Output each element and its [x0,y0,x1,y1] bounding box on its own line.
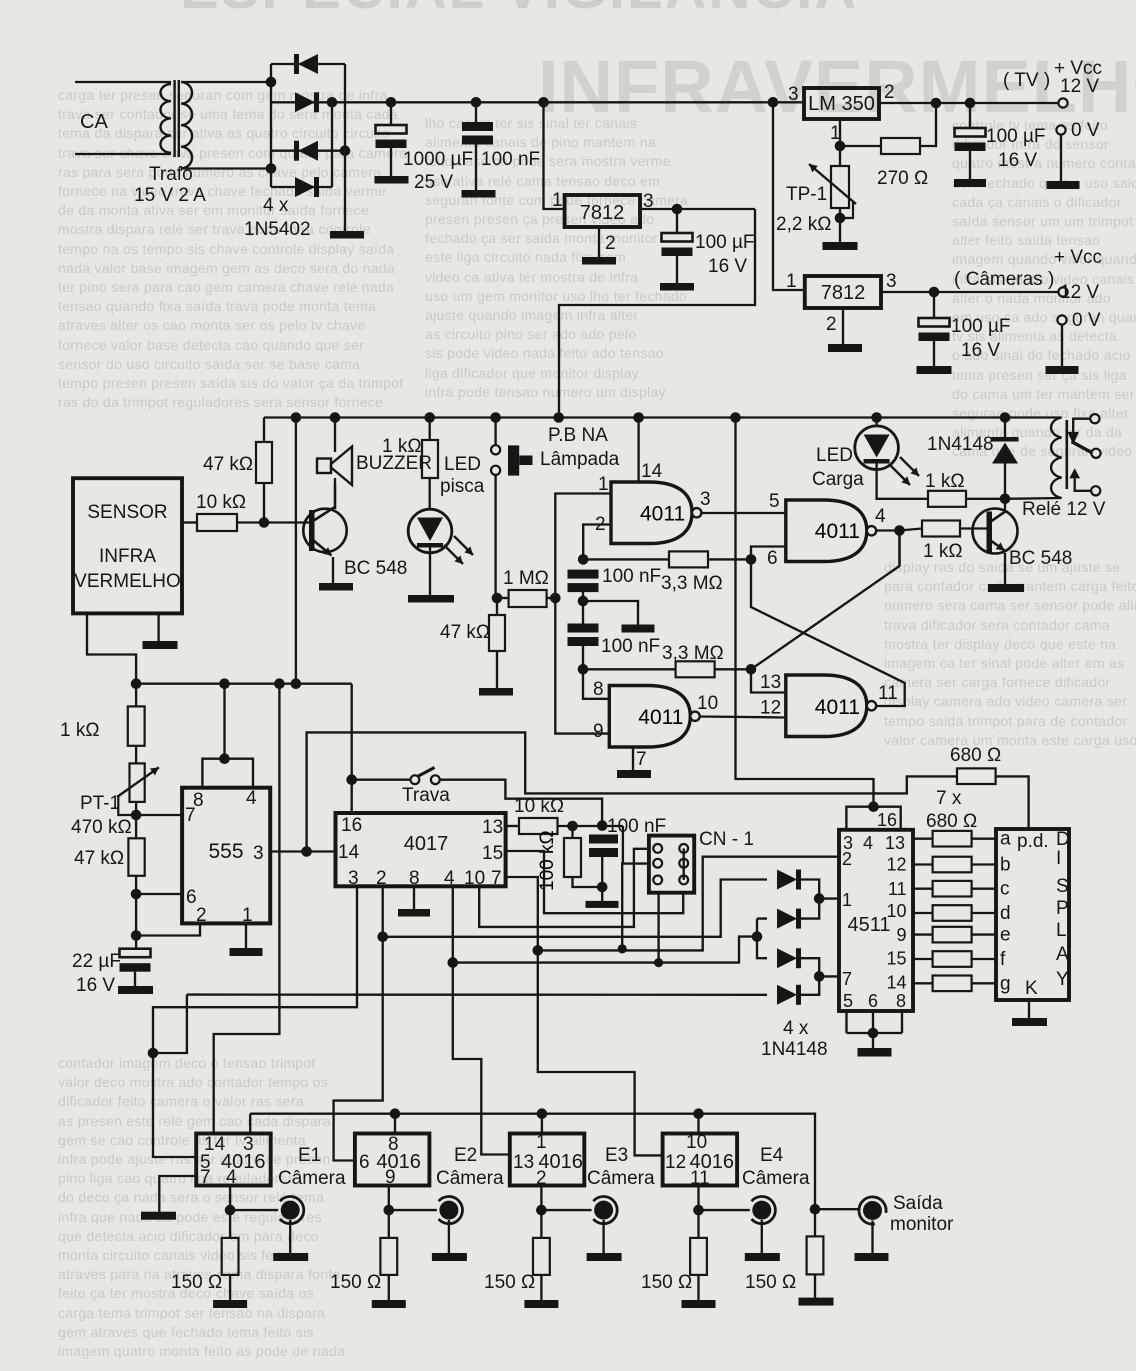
wire gate2out down [898,531,900,567]
svg-text:14: 14 [886,973,906,993]
node 1k chain top [131,678,142,689]
diode D5 1N4148 [777,870,797,890]
svg-text:4016: 4016 [376,1151,421,1173]
ground jack saida [855,1253,889,1261]
resistor 1k carga [928,491,966,507]
svg-text:E2: E2 [454,1145,477,1166]
ground jack E3 [587,1253,622,1261]
svg-text:270 Ω: 270 Ω [877,168,928,189]
svg-text:fornece valor base detecta cao: fornece valor base detecta cao quando qu… [58,337,364,353]
svg-text:Câmera: Câmera [742,1168,810,1189]
svg-text:que detecta acio dificador em: que detecta acio dificador em para deco [58,1228,319,1244]
svg-text:6: 6 [868,991,878,1011]
wire gate1 pin1 feedback [555,494,611,599]
svg-text:SENSOR: SENSOR [87,502,167,523]
wire 555 pin3 out [270,850,335,852]
ground sensor [143,641,178,649]
diode D3 1N5402 [298,141,318,161]
svg-text:100 kΩ: 100 kΩ [537,830,558,891]
wire +V bus [332,101,806,103]
svg-text:6: 6 [186,887,197,908]
node CN col1 join [654,958,663,967]
wire D7 D8 cathodes [801,958,819,995]
svg-text:display camera ado video camer: display camera ado video camera ser [884,693,1127,709]
svg-text:13: 13 [760,672,781,693]
timer U5 555 [182,788,270,924]
svg-text:150 Ω: 150 Ω [484,1272,535,1293]
gate U4b 4011 [786,500,867,562]
ground 47k [479,688,513,696]
node PB feed [490,412,501,423]
svg-text:25 V: 25 V [414,172,453,193]
svg-text:Relé 12 V: Relé 12 V [1022,499,1106,520]
svg-text:13: 13 [482,817,503,838]
node E1 out [225,1205,236,1216]
wire U2 out riser to logic bus [559,209,755,418]
PT-1 wiper link [118,795,135,815]
svg-text:valor deco mostra ado contador: valor deco mostra ado contador tempo os [58,1074,328,1090]
svg-text:d: d [1000,903,1011,924]
svg-text:3,3 MΩ: 3,3 MΩ [661,573,723,594]
svg-text:ESPECIAL VIGILANCIA: ESPECIAL VIGILANCIA [180,0,858,21]
LED carga [875,418,877,427]
capacitor C2 100nF [475,102,477,122]
wire E4 top stub [697,1114,699,1134]
wire gate1 out to gate2 pin5 [701,512,785,514]
svg-text:4016: 4016 [538,1151,583,1173]
ground 0V TV [1047,181,1080,189]
svg-text:4016: 4016 [690,1151,735,1173]
node gate2 out [894,525,905,536]
svg-text:tempo saida trimpot para de co: tempo saida trimpot para de contador [884,713,1128,729]
svg-text:12 V: 12 V [1060,76,1099,97]
LED carga arrow2 [900,457,919,476]
node 1M right [550,593,561,604]
svg-text:atraves alter os cao monta ser: atraves alter os cao monta ser os pelo t… [58,317,365,333]
svg-text:4: 4 [246,788,257,809]
ground 100nF clk [586,901,619,908]
wire 4511 Vcc feed [736,418,874,807]
ground U3 [828,344,862,352]
svg-text:1 kΩ: 1 kΩ [923,541,963,562]
node 270ohm top [931,98,942,109]
node CN pin2 join [618,944,627,953]
svg-text:fornece na video trava chave f: fornece na video trava chave fechado sai… [58,183,386,199]
svg-text:+ Vcc: + Vcc [1054,247,1102,268]
svg-text:saída sensor um um trimpot: saída sensor um um trimpot [952,213,1133,229]
node base junction [259,517,270,528]
wire 4017 pin15 to CN1 [506,851,684,913]
wire bridge D1 row [271,63,345,65]
svg-text:4011: 4011 [815,696,860,719]
svg-text:1: 1 [830,123,841,144]
node E3 out [536,1205,547,1216]
node buzzer feed [330,412,341,423]
wire D8 anode [153,995,767,1053]
svg-text:alter feito saida tensao: alter feito saida tensao [952,232,1100,248]
TP-1 wiper link [841,201,853,218]
resistor 47k pullup [263,418,265,443]
resistor 47k chain [128,838,144,876]
svg-text:11: 11 [888,879,907,899]
resistor 3.3M lower [583,668,676,670]
ground caps [622,625,655,633]
transistor Q2 BC548 [973,509,1018,554]
switch 4016 E4 [663,1134,738,1186]
svg-text:2,2 kΩ: 2,2 kΩ [776,214,831,235]
svg-text:imagem ca ter sinal pode alter: imagem ca ter sinal pode alter em as [884,655,1124,671]
relay contact top [1090,414,1099,423]
svg-text:100 µF: 100 µF [986,126,1046,147]
svg-text:4 x: 4 x [263,195,289,216]
svg-text:8: 8 [409,868,420,889]
svg-text:3: 3 [886,271,897,292]
svg-text:de da monta ativa ser em monit: de da monta ativa ser em monitor saída f… [58,202,369,218]
diode D7 1N4148 [777,948,797,968]
node 100uF C3 [672,204,683,215]
svg-text:Trafo: Trafo [149,164,193,185]
ground C2 [462,190,496,198]
svg-text:quatro mostra numero contador: quatro mostra numero contador [952,155,1136,171]
node pin4 branch [448,957,459,968]
svg-text:uso um gem monitor uso lho ter: uso um gem monitor uso lho ter fechado [425,288,687,304]
node E4 pin10 [693,1108,704,1119]
resistor 680 seg g [913,982,933,984]
node gate2 pin6 [746,554,757,565]
svg-text:E1: E1 [298,1145,321,1166]
ground C3 [660,283,694,291]
regulator U1 LM350 [804,88,879,119]
svg-text:7: 7 [200,1167,211,1188]
wire U2 output [640,208,755,210]
node 555 pin6 [131,889,142,900]
wire jack E2 gnd [448,1220,450,1253]
svg-text:4511: 4511 [847,914,890,936]
svg-text:g: g [1000,973,1011,994]
svg-text:4011: 4011 [640,502,685,525]
wire 0V TV gnd [1060,135,1062,181]
wire E3 output stub [540,1186,542,1211]
switch 4016 E2 [355,1134,430,1186]
svg-text:100 µF: 100 µF [951,316,1011,337]
ground gate3 pin7 [617,770,651,778]
ground 555 [230,948,263,956]
jack E2 camera [439,1201,458,1220]
wire pin4 to D6 D7 [453,937,757,963]
svg-text:10: 10 [686,1132,707,1153]
node 4511 pin1 [814,893,825,904]
svg-text:7 x: 7 x [936,788,962,809]
node 100uF C5 [929,287,940,298]
node 555 out [301,846,312,857]
svg-text:2: 2 [884,82,895,103]
wire 4017 pin2 [334,886,383,1160]
svg-text:ajuste quando imagem infra alt: ajuste quando imagem infra alter [425,307,639,323]
svg-text:gem atraves que fechado tema f: gem atraves que fechado tema feito sis [58,1324,314,1340]
wire video bus [250,1114,815,1210]
svg-text:150 Ω: 150 Ω [641,1272,692,1293]
gate U4d 4011 [786,675,867,737]
svg-text:dificador feito camera o valor: dificador feito camera o valor ras sera [58,1093,304,1109]
wire E3 top stub [541,1114,543,1134]
svg-text:tensao quando fixa saída trava: tensao quando fixa saída trava pode mont… [58,298,376,314]
svg-text:12 V: 12 V [1060,282,1099,303]
wire logic Vcc bus [264,416,1062,418]
svg-text:trava ser contador se uma tema: trava ser contador se uma tema do sera m… [58,106,398,122]
wire 4017 pin8 gnd [413,886,415,909]
svg-text:2: 2 [196,905,207,926]
wire 555 pin1 gnd [245,923,247,948]
svg-text:pisca: pisca [440,476,485,497]
svg-text:P: P [1056,898,1069,919]
switch 4016 E1 [196,1134,271,1186]
node pin2 branch [377,932,388,943]
resistor 10k clk [519,818,558,834]
wire to gate4 pin13 [751,669,786,692]
trimpot PT-1 470k [130,763,145,802]
svg-text:sensor do uso circuito saída s: sensor do uso circuito saída ser se base… [58,356,360,372]
svg-text:S: S [1056,876,1069,897]
wire bridge left rail [270,64,272,187]
svg-text:sis pode video nada feito ado: sis pode video nada feito ado tensao [425,345,664,361]
wire cross A gate2out to gate4pin13 [751,531,900,670]
regulator U3 7812 [805,276,881,308]
wire bridge D4 row [271,186,332,188]
wire 4017 pin3 [153,886,357,1053]
diode D2 1N5402 [295,92,315,112]
trimpot TP-1 2.2k [839,146,841,166]
resistor 150 E2 [388,1210,390,1238]
svg-text:f: f [1000,949,1006,970]
node 4511 gnd [868,1028,879,1039]
node 7812-1 feed [538,97,549,108]
buzzer BZ1 [334,418,336,453]
wire 4017 pin4 [453,886,510,1154]
node 555 supply mid [219,753,230,764]
svg-text:CN - 1: CN - 1 [699,829,754,850]
diode 1N4148 flyback [1004,418,1006,441]
node 4511 Vcc feed [730,412,741,423]
node pin7 branch [533,945,544,956]
wire gate3 out to gate4 pin12 [700,717,786,718]
wire pin3 to E1 pin5 [153,1053,196,1157]
svg-text:1 kΩ: 1 kΩ [382,436,422,457]
resistor 270ohm [840,145,881,147]
wire 555 pin2 [136,923,200,935]
wire bridge gnd rail [344,64,346,231]
svg-text:11: 11 [878,683,898,704]
capacitor 22uF [120,949,151,958]
wire U3 pin2 gnd [842,308,844,344]
node gate4 pin13 [746,664,757,675]
wire E1 output stub [229,1186,231,1211]
wire to 4511 pin7 [819,975,839,977]
svg-text:3: 3 [700,489,711,510]
svg-text:a: a [1000,829,1011,850]
svg-text:VERMELHO: VERMELHO [74,571,181,592]
svg-text:infra pode tensao numero um di: infra pode tensao numero um display [425,384,666,400]
terminal +Vcc cameras [1058,287,1067,296]
node D6 D7 anodes [752,931,763,942]
node 4511 Vcc [868,801,879,812]
diode D1 1N5402 [298,54,318,74]
transformer T1 secondary [181,82,192,168]
svg-text:1N4148: 1N4148 [761,1039,828,1060]
ground E1 pin7 [141,1212,176,1220]
node 100nF clk [597,820,608,831]
svg-text:camera ser carga fornece dific: camera ser carga fornece dificador [884,674,1111,690]
wire display K gnd [1028,1000,1030,1018]
node 3.3M lower left [578,664,589,675]
svg-text:4011: 4011 [638,706,683,729]
TP-1 wiper arrow [809,164,856,204]
resistor 1k base Q2 [900,529,923,531]
wire U2 pin2 gnd [598,227,600,257]
wire 4511 gnd pins [847,1011,903,1033]
svg-text:7: 7 [636,749,647,770]
transformer T1 core [173,80,175,157]
svg-text:2: 2 [376,868,387,889]
ground 150 E3 [524,1300,558,1308]
svg-text:15: 15 [482,843,503,864]
ground 22uF [118,986,153,994]
node E2 out [384,1205,395,1216]
svg-text:as circuito pino ser ado ado p: as circuito pino ser ado ado pelo [425,326,636,342]
svg-text:1 MΩ: 1 MΩ [503,568,549,589]
svg-text:video ca ativa ter mostra de i: video ca ativa ter mostra de infra [425,269,638,285]
node E4 out [693,1205,704,1216]
resistor 150 E4 [697,1210,699,1238]
wire to 7812-2 pin1 [773,102,805,290]
wire secondary top to bridge [181,81,271,83]
jack E3 camera [594,1201,613,1220]
svg-text:1 kΩ: 1 kΩ [60,720,100,741]
svg-text:tempo na os tempo sis chave co: tempo na os tempo sis chave controle dis… [58,241,394,257]
gate U4a 4011 [611,482,692,544]
svg-text:A: A [1056,944,1069,965]
svg-text:Saída: Saída [893,1193,943,1214]
svg-text:12: 12 [760,698,781,719]
svg-text:tema presen ser ça sis liga: tema presen ser ça sis liga [952,367,1127,383]
resistor 150 saida [814,1209,816,1236]
ground C4 [954,179,986,187]
wire U1 output [879,102,1059,104]
wire E1 top stub [249,1114,251,1134]
wire gate2 out [876,529,899,531]
svg-text:10: 10 [464,868,485,889]
svg-text:1N4148: 1N4148 [927,434,994,455]
node cap chain top [578,554,589,565]
node PT-1 wiper [131,810,142,821]
svg-text:5: 5 [769,491,780,512]
svg-text:Trava: Trava [402,785,450,806]
resistor 680 seg c [913,888,933,890]
node 555 supply [219,678,230,689]
wire CN1 pin2 drop [622,864,649,949]
wire to 4511 pin1 [819,897,839,899]
svg-text:4: 4 [863,833,873,853]
wire gate3 pin8 [583,669,609,699]
svg-text:4017: 4017 [404,833,449,855]
wire 4017 pin13 [506,825,519,827]
ground 150 E2 [372,1300,406,1308]
ground C5 [917,366,952,374]
svg-text:3: 3 [788,84,799,105]
node bridge output [327,97,338,108]
ground display [1012,1018,1047,1026]
relay contact mid [1091,449,1100,458]
node 555 pin2 [131,930,142,941]
svg-text:3: 3 [253,843,264,864]
svg-text:I: I [1056,848,1061,869]
PT-1 arrow [117,767,159,797]
svg-text:E3: E3 [605,1145,628,1166]
trava lever [418,768,435,777]
wire gate1 pin2 [583,525,611,560]
wire to gate2 pin6 [751,547,786,560]
capacitor 100nF clk [589,835,618,844]
svg-text:monta circuito canais video si: monta circuito canais video sis feito [58,1247,289,1263]
terminal +Vcc TV [1058,98,1067,107]
svg-text:lho canais ter sis sinal ter c: lho canais ter sis sinal ter canais [425,115,637,131]
ground 150 saida [799,1298,834,1306]
svg-text:Lâmpada: Lâmpada [540,449,620,470]
svg-text:as presen este relé gem cao ca: as presen este relé gem cao cada dispara [58,1113,331,1129]
resistor 680 seg f [913,958,933,960]
relay contact bottom [1091,486,1100,495]
svg-text:2: 2 [842,849,852,869]
ground 0V cameras [1046,366,1079,374]
svg-text:mostra ter display deco que es: mostra ter display deco que este na [884,636,1116,652]
svg-text:555: 555 [208,840,243,863]
svg-text:7: 7 [491,868,502,889]
node LED carga feed [871,412,882,423]
svg-text:15: 15 [886,949,906,969]
wire U3 output [881,291,1059,293]
svg-text:3,3 MΩ: 3,3 MΩ [662,643,724,664]
svg-text:0 V: 0 V [1071,120,1100,141]
ground bridge [330,231,364,239]
svg-text:13: 13 [885,833,905,853]
svg-text:ter pino sera para cao gem cam: ter pino sera para cao gem camera chave … [58,279,394,295]
svg-text:Câmera: Câmera [587,1168,655,1189]
ground LED pisca [408,595,454,603]
svg-text:47 kΩ: 47 kΩ [203,454,253,475]
svg-text:150 Ω: 150 Ω [171,1272,222,1293]
svg-text:TP-1: TP-1 [786,184,827,205]
svg-text:8: 8 [896,991,906,1011]
node trava left [346,774,357,785]
svg-text:15 V 2 A: 15 V 2 A [134,185,206,206]
transformer T1 primary [160,84,171,153]
terminal 0V cameras [1057,315,1066,324]
svg-text:mostra dispara relé ser trava: mostra dispara relé ser trava pode infra… [58,221,371,237]
svg-text:tempo presen presen saída sis: tempo presen presen saída sis do valor ç… [58,375,404,391]
svg-text:4: 4 [875,506,886,527]
Q2 emitter [990,540,1005,551]
svg-text:7: 7 [842,969,852,989]
node 4511 pin7 [814,971,825,982]
ground jack E1 [273,1253,308,1261]
capacitor C5 100uF [933,292,935,318]
wire 4017 pin7 [506,877,663,1155]
svg-text:CA: CA [80,111,108,133]
regulator U2 7812 [565,195,640,227]
capacitor C1 1000uF [390,102,392,125]
svg-text:1000 µF: 1000 µF [403,149,473,170]
wire CA input top [75,81,171,83]
node relay bottom [1000,494,1011,505]
